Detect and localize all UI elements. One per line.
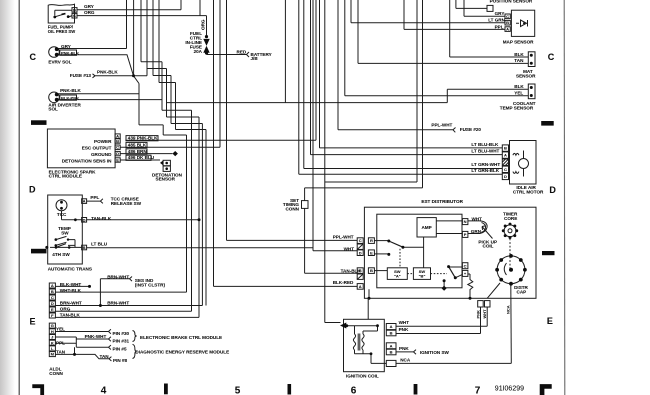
svg-text:SENSOR: SENSOR xyxy=(516,74,536,79)
coil core lines xyxy=(358,334,360,351)
svg-text:SW: SW xyxy=(61,231,69,236)
ground diamond 486 BRN xyxy=(173,151,178,156)
dot BLK-WHT end xyxy=(88,285,91,288)
wire 486 BRN to ground arrow xyxy=(120,153,172,155)
svg-text:ORG: ORG xyxy=(201,19,206,30)
wire NCA coil xyxy=(396,362,511,364)
svg-text:C: C xyxy=(116,145,119,150)
svg-text:A: A xyxy=(83,199,86,204)
margin dash left 2 xyxy=(31,249,47,254)
svg-text:ORG: ORG xyxy=(84,10,95,15)
svg-text:TAN-BLK: TAN-BLK xyxy=(60,313,81,318)
timer core gear xyxy=(504,225,516,237)
wire PNK to ignition sw xyxy=(396,350,416,355)
svg-text:LT BLU: LT BLU xyxy=(91,242,108,247)
svg-text:BLK-PNK: BLK-PNK xyxy=(61,95,79,100)
IAC hatch marks xyxy=(502,159,508,165)
svg-text:PPL: PPL xyxy=(90,195,99,200)
svg-text:J/B: J/B xyxy=(251,56,259,61)
svg-text:E: E xyxy=(51,307,54,312)
wire ignition coil feed xyxy=(325,0,341,323)
svg-text:TAN: TAN xyxy=(514,58,524,63)
wire PPL ALDL J xyxy=(55,337,76,347)
svg-text:486 BRN: 486 BRN xyxy=(128,149,148,154)
bottom corner mark right xyxy=(540,384,552,395)
svg-text:BLK: BLK xyxy=(514,84,524,89)
fuel pump pin C xyxy=(72,13,77,18)
svg-text:C: C xyxy=(504,167,507,172)
svg-text:PIN #5: PIN #5 xyxy=(113,347,127,352)
svg-text:PPL-WHT: PPL-WHT xyxy=(333,235,354,240)
coil secondary squiggle xyxy=(362,334,364,354)
svg-text:B: B xyxy=(506,20,509,25)
EST switch dots xyxy=(387,240,390,243)
EST outer box xyxy=(364,207,536,298)
IAC motor body xyxy=(510,141,537,185)
ground diamond in est xyxy=(442,286,447,291)
ESC wire labels xyxy=(128,136,158,161)
wire ORG fuel pump to in-line fuse xyxy=(77,0,207,35)
right page edge line xyxy=(563,0,566,395)
brace pins 5-8 xyxy=(133,344,137,358)
ESC module box xyxy=(47,129,115,168)
svg-text:439 PNK-BLK: 439 PNK-BLK xyxy=(128,136,158,141)
svg-text:B: B xyxy=(390,331,393,336)
wire ALDL K to pin 5 xyxy=(55,343,111,349)
wire staircase 1 xyxy=(141,0,192,110)
MAP internal arrow dot xyxy=(523,22,525,24)
set timing conn square xyxy=(302,201,309,209)
wire staircase 4 xyxy=(159,0,206,306)
svg-text:MAP SENSOR: MAP SENSOR xyxy=(503,40,534,45)
wire bundle line to ALDL B xyxy=(55,135,186,292)
svg-text:7: 7 xyxy=(475,385,481,395)
MAP internal symbol xyxy=(516,20,528,27)
IAC coil symbols xyxy=(513,153,519,173)
wire PNK-BLK air diverter sol xyxy=(57,93,139,95)
wire WHT distr to coil xyxy=(396,307,487,326)
svg-text:"A": "A" xyxy=(394,274,401,279)
svg-text:G: G xyxy=(51,323,54,328)
coil bottom wire xyxy=(355,354,387,364)
svg-text:LT GRN: LT GRN xyxy=(488,18,505,23)
svg-text:IGNITION SW: IGNITION SW xyxy=(420,350,450,355)
distr cap contacts xyxy=(495,254,527,286)
fuel pump contact dots xyxy=(53,16,56,19)
svg-text:SENSOR: SENSOR xyxy=(156,177,176,182)
svg-text:CTRL MODULE: CTRL MODULE xyxy=(49,174,82,179)
brace pins 30-31 xyxy=(133,331,137,342)
svg-text:WHT: WHT xyxy=(344,246,355,251)
wire PPL-WHT to fuse 20 xyxy=(338,0,456,132)
svg-text:A: A xyxy=(359,284,362,289)
wire MAP GRY xyxy=(464,0,505,16)
4th sw lever and wire xyxy=(50,244,82,248)
svg-text:D: D xyxy=(359,250,362,255)
label FUEL CTRL IN-LINE FUSE 20A xyxy=(185,31,202,54)
svg-text:D: D xyxy=(116,151,119,156)
EST pins C + switch right xyxy=(462,263,468,269)
trans labels xyxy=(48,195,142,271)
label ALDL CONN xyxy=(49,367,63,377)
ALDL pin letters xyxy=(51,283,55,357)
svg-text:ESC OUTPUT: ESC OUTPUT xyxy=(82,145,112,150)
svg-text:RED: RED xyxy=(237,49,247,54)
svg-text:E: E xyxy=(547,316,553,326)
svg-text:P: P xyxy=(464,232,467,237)
dot BRN-WHT junction xyxy=(99,304,102,307)
pin hatches xyxy=(357,244,363,279)
label DETONATION SENSOR xyxy=(152,172,183,181)
ignition coil box xyxy=(344,319,385,371)
EST pins left outer column xyxy=(357,238,363,244)
svg-text:WHT-BLK: WHT-BLK xyxy=(60,288,82,293)
svg-text:N: N xyxy=(464,219,467,224)
cap to pins diagonal xyxy=(487,283,500,298)
coil feed arrow diamond xyxy=(340,323,346,329)
svg-text:PPL-WHT: PPL-WHT xyxy=(431,123,452,128)
svg-text:A: A xyxy=(390,324,393,329)
svg-text:IGNITION COIL: IGNITION COIL xyxy=(346,374,379,379)
coil primary squiggle xyxy=(353,326,355,354)
svg-text:OIL PRES SW: OIL PRES SW xyxy=(48,29,75,34)
MAP pin letters xyxy=(504,14,509,179)
fuel pump lever dash xyxy=(61,13,65,15)
pickup coil wires xyxy=(468,221,487,234)
temp sw dots xyxy=(55,238,58,241)
margin dash right 1 xyxy=(541,121,554,126)
wire PPL to TCC cruise release sw xyxy=(87,199,103,204)
svg-text:B: B xyxy=(83,245,86,250)
svg-text:6: 6 xyxy=(351,385,357,395)
svg-text:R: R xyxy=(370,238,373,243)
svg-text:POWER: POWER xyxy=(94,139,112,144)
svg-text:CONN: CONN xyxy=(285,207,299,212)
svg-text:YEL: YEL xyxy=(56,327,65,332)
wire set timing line xyxy=(305,0,423,273)
svg-text:B: B xyxy=(51,289,54,294)
wire MAP PPL xyxy=(404,0,505,29)
labels WHT GRN pickup xyxy=(471,217,482,235)
EST bottom edge dots xyxy=(368,297,371,300)
coolant sensor body xyxy=(528,84,535,99)
svg-text:E: E xyxy=(30,316,36,326)
wire WHT to EST pin D xyxy=(313,0,357,251)
svg-text:WHT: WHT xyxy=(472,217,483,222)
svg-text:FUSE #20: FUSE #20 xyxy=(460,127,482,132)
svg-text:PNK-BLK: PNK-BLK xyxy=(61,50,79,55)
wire cross link xyxy=(325,0,417,182)
svg-text:4: 4 xyxy=(101,385,107,395)
svg-text:GRY: GRY xyxy=(495,11,505,16)
ESC internal labels xyxy=(62,139,112,163)
svg-text:TEMP SENSOR: TEMP SENSOR xyxy=(500,105,534,110)
MAT sensor body xyxy=(528,52,535,67)
wire 485 BLK vertical xyxy=(219,0,221,147)
air diverter BLK-PNK label box xyxy=(60,95,77,100)
wire IAC LT BLU-WHT xyxy=(311,0,503,155)
svg-text:PNK: PNK xyxy=(399,327,409,332)
EST pins inner column R E B xyxy=(368,238,374,244)
svg-text:TAN-BLK: TAN-BLK xyxy=(91,216,112,221)
svg-text:LT GRN-BLK: LT GRN-BLK xyxy=(471,168,499,173)
svg-text:RELEASE SW: RELEASE SW xyxy=(111,201,142,206)
svg-text:FUSE #13: FUSE #13 xyxy=(70,73,92,78)
svg-text:PNK: PNK xyxy=(475,310,480,319)
margin dash left 1 xyxy=(31,120,47,125)
left page edge line xyxy=(18,0,20,395)
svg-text:BRN-WHT: BRN-WHT xyxy=(107,301,129,306)
EVRV solenoid circle xyxy=(49,47,60,58)
label PICK UP COIL xyxy=(478,239,497,248)
dot TAN M junction xyxy=(73,353,76,356)
air diverter solenoid circle xyxy=(49,92,60,103)
label DISTR CAP xyxy=(514,285,528,294)
AMP to N and P xyxy=(436,221,462,234)
E pin wire xyxy=(374,253,388,255)
svg-text:496 DK BLU: 496 DK BLU xyxy=(128,155,155,160)
svg-text:TAN: TAN xyxy=(56,350,66,355)
air diverter terminal dots xyxy=(55,93,59,97)
svg-text:PNK-WHT: PNK-WHT xyxy=(85,334,107,339)
svg-text:D: D xyxy=(83,217,86,222)
EVRV PNK-BLK label box xyxy=(60,50,77,55)
svg-text:4TH SW: 4TH SW xyxy=(52,252,70,257)
svg-text:GRN: GRN xyxy=(471,229,482,234)
svg-text:AMP: AMP xyxy=(421,225,431,230)
svg-text:B: B xyxy=(370,268,373,273)
dashed timer to cap xyxy=(509,239,511,269)
svg-text:AUTOMATIC TRANS: AUTOMATIC TRANS xyxy=(48,266,92,271)
svg-text:WHT: WHT xyxy=(482,309,487,319)
svg-text:PNK-BLK: PNK-BLK xyxy=(60,88,81,93)
wire PNK-BLK EVRV sol to fuse13 junction xyxy=(57,55,134,76)
svg-text:BLK-RED: BLK-RED xyxy=(333,280,354,285)
svg-text:COIL: COIL xyxy=(483,244,494,249)
SW A box xyxy=(387,268,407,280)
ESC pin letters xyxy=(116,134,119,163)
svg-text:B: B xyxy=(116,139,119,144)
svg-text:C: C xyxy=(30,52,37,62)
dashed sw links xyxy=(407,273,447,275)
svg-text:B: B xyxy=(390,350,393,355)
svg-text:PIN #31: PIN #31 xyxy=(113,338,130,343)
svg-text:91I06299: 91I06299 xyxy=(495,385,524,392)
EST pin letters xyxy=(359,219,467,289)
wire YEL ALDL H to pin 30 xyxy=(55,329,111,333)
bottom corner mark left xyxy=(32,384,44,395)
label TIMER CORE xyxy=(503,212,518,221)
svg-text:D: D xyxy=(73,7,76,12)
R pin wire and lever xyxy=(374,240,388,242)
svg-text:SOL: SOL xyxy=(48,107,58,112)
wire bundle line to ALDL E xyxy=(55,110,191,311)
coil labels xyxy=(399,320,411,363)
bottom tick 3 xyxy=(414,384,418,395)
wire LT BLU from 4th sw xyxy=(87,247,313,249)
ESC pin boxes A-E xyxy=(115,134,120,138)
fuel pump switch lever xyxy=(56,14,64,16)
wire TAN-BLK trans to bundle xyxy=(87,219,199,221)
svg-text:B: B xyxy=(504,146,507,151)
svg-text:CTRL MOTOR: CTRL MOTOR xyxy=(513,190,544,195)
detonation sensor arrow xyxy=(160,160,163,165)
wire coolant BLK long run xyxy=(167,0,529,103)
coil pin boxes xyxy=(386,324,396,330)
wire into EST bottom from coil col xyxy=(367,298,369,319)
left scan margin gradient xyxy=(0,0,15,395)
bottom tick 1 xyxy=(164,384,168,395)
detonation sensor boxes xyxy=(163,160,170,165)
svg-text:EST DISTRIBUTOR: EST DISTRIBUTOR xyxy=(421,199,463,204)
R lever to SW B link xyxy=(403,237,424,268)
svg-text:GRY: GRY xyxy=(61,44,71,49)
detonation sensor dots xyxy=(165,162,168,165)
trans pin B xyxy=(82,245,87,250)
svg-text:PNK: PNK xyxy=(399,346,409,351)
wire PNK-BLK fuse #13 to junction xyxy=(93,74,134,78)
svg-text:D: D xyxy=(51,301,54,306)
svg-text:DETONATION SENS IN: DETONATION SENS IN xyxy=(62,158,112,163)
svg-text:CONN: CONN xyxy=(49,371,63,376)
inner B pin wire xyxy=(374,270,387,272)
automatic trans box xyxy=(48,195,83,264)
svg-text:D: D xyxy=(29,185,36,195)
svg-text:POSITION SENSOR: POSITION SENSOR xyxy=(490,0,533,4)
svg-text:ORG: ORG xyxy=(60,307,71,312)
wire BLK-PNK air diverter sol xyxy=(57,99,162,101)
fuel pump internal wire xyxy=(55,10,72,16)
EST inner box xyxy=(377,214,462,288)
svg-text:C: C xyxy=(51,295,54,300)
AMP box xyxy=(417,218,436,237)
fuel pump / oil pres sw box xyxy=(48,4,74,23)
svg-text:20A: 20A xyxy=(194,49,203,54)
SW A SW B text xyxy=(394,269,425,279)
timer core teeth xyxy=(368,223,527,300)
wire IAC LT GRN-BLK xyxy=(299,0,503,174)
ALDL pin boxes G-M xyxy=(49,323,55,328)
svg-text:NCA: NCA xyxy=(506,305,511,314)
wire bundle line to ALDL D xyxy=(55,124,202,306)
4th sw dots xyxy=(45,246,48,249)
fuel pump pin D xyxy=(72,8,77,13)
svg-text:J: J xyxy=(51,335,53,340)
distr cap circle xyxy=(497,256,525,284)
wire RED fuse to battery J/B xyxy=(207,52,250,57)
svg-text:C: C xyxy=(506,14,509,19)
MAP sensor body xyxy=(511,10,534,36)
svg-text:GRY: GRY xyxy=(84,4,94,9)
wire PNK distr to coil xyxy=(396,307,480,334)
pickup arrow xyxy=(482,226,493,239)
wire junction line from top xyxy=(133,0,135,76)
coil internal top wire xyxy=(347,326,378,334)
svg-text:A: A xyxy=(390,343,393,348)
wire BLK-RED vertical to EST pin A xyxy=(214,0,358,286)
wire IAC LT BLU-BLK xyxy=(320,0,503,148)
svg-text:C: C xyxy=(73,13,76,18)
fuse13 junction dot xyxy=(132,74,135,77)
svg-text:PIN #8: PIN #8 xyxy=(113,358,127,363)
IAC pin boxes B A hatch C D xyxy=(502,145,508,151)
MAP pin boxes C B A xyxy=(505,14,510,19)
EST pins N P right of inner box xyxy=(462,219,468,225)
tan-blk junction dot xyxy=(198,218,201,221)
svg-text:A: A xyxy=(51,283,54,288)
EVRV terminal dots xyxy=(55,47,59,51)
svg-text:D: D xyxy=(504,174,507,179)
pin letters fuel pump xyxy=(73,7,76,18)
svg-text:A: A xyxy=(504,153,507,158)
svg-text:LT BLU-WHT: LT BLU-WHT xyxy=(471,148,499,153)
svg-text:CORE: CORE xyxy=(504,216,517,221)
svg-text:LT GRN-WHT: LT GRN-WHT xyxy=(471,162,500,167)
margin dash right 2 xyxy=(542,251,555,255)
svg-text:PPL: PPL xyxy=(56,341,65,346)
svg-text:E: E xyxy=(370,250,373,255)
svg-text:PIN #30: PIN #30 xyxy=(113,331,130,336)
MAT sensor dots xyxy=(530,54,533,57)
svg-text:D: D xyxy=(549,185,556,195)
bottom tick 2 xyxy=(288,384,292,395)
wire MAT TAN xyxy=(358,0,528,63)
svg-text:TAN-BLK: TAN-BLK xyxy=(341,269,362,274)
svg-text:(INST CLSTR): (INST CLSTR) xyxy=(135,283,166,288)
label SET TIMING CONN xyxy=(283,198,300,212)
ALDL pin boxes A-F xyxy=(49,283,55,288)
SW B box xyxy=(413,268,430,280)
svg-text:C: C xyxy=(548,52,555,62)
wire PPL-WHT vertical to EST pin C xyxy=(227,0,358,240)
TCC internal drop xyxy=(62,211,82,220)
coil internal dots xyxy=(376,324,379,327)
svg-text:LT BLU-BLK: LT BLU-BLK xyxy=(471,142,499,147)
NCA wire from cap xyxy=(510,284,513,363)
svg-text:BRN-WHT: BRN-WHT xyxy=(60,301,82,306)
wire 485 BLK xyxy=(120,146,220,148)
right switch contact wires xyxy=(449,266,463,268)
sensor wire labels xyxy=(431,11,524,173)
svg-text:TCC: TCC xyxy=(57,212,67,217)
ground branch in est xyxy=(443,281,445,287)
svg-text:PPL: PPL xyxy=(495,24,504,29)
wire GRY EVRV sol to top xyxy=(57,0,127,49)
svg-text:WHT: WHT xyxy=(399,320,410,325)
svg-text:H: H xyxy=(51,329,54,334)
svg-text:485 BLK: 485 BLK xyxy=(128,142,147,147)
ESC wire label boxes xyxy=(126,136,158,141)
wire junction output down to bundle xyxy=(134,76,187,135)
svg-text:YEL: YEL xyxy=(514,90,523,95)
wire coolant YEL xyxy=(345,0,529,96)
svg-text:"B": "B" xyxy=(419,274,426,279)
wire BLK-WHT ALDL A xyxy=(55,285,89,287)
svg-text:BLK-WHT: BLK-WHT xyxy=(60,282,82,287)
wire 439 PNK-BLK riser xyxy=(125,0,316,140)
wire PNK-WHT to pin 31 xyxy=(76,337,111,341)
trans pin A xyxy=(82,199,87,204)
coolant sensor dots xyxy=(530,86,533,89)
coil pin letters xyxy=(390,324,393,354)
labels top-left xyxy=(48,4,119,112)
wire position sensor xyxy=(456,0,487,8)
label ELECTRONIC SPARK CTRL MODULE xyxy=(49,169,97,178)
svg-text:CAP: CAP xyxy=(517,289,527,294)
svg-text:5: 5 xyxy=(235,385,241,395)
dashed R to sw A xyxy=(399,249,401,268)
ALDL labels xyxy=(56,274,165,363)
